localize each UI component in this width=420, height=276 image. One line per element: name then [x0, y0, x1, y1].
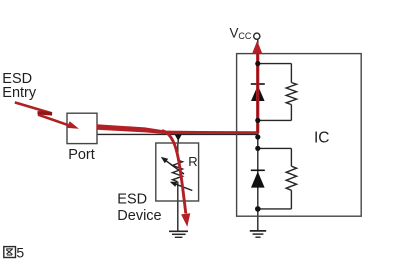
svg-text:R: R [188, 154, 197, 169]
svg-text:V: V [230, 25, 239, 40]
svg-text:ESD: ESD [117, 192, 147, 208]
svg-text:IC: IC [314, 130, 330, 147]
svg-text:Port: Port [68, 147, 95, 163]
svg-text:Entry: Entry [2, 85, 37, 101]
svg-text:Device: Device [117, 208, 161, 224]
svg-text:CC: CC [238, 31, 251, 41]
svg-text:5: 5 [16, 245, 24, 261]
